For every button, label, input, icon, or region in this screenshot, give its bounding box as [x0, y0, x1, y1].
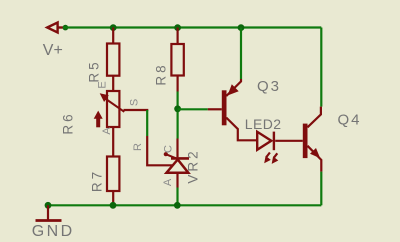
wire Q3 base: [178, 108, 208, 110]
wire R net (green): [146, 110, 148, 136]
svg-text:LED2: LED2: [245, 116, 282, 132]
wire top rail: [63, 26, 321, 28]
ground symbol: [36, 205, 62, 220]
svg-text:A: A: [101, 127, 113, 135]
resistor R7: [107, 127, 119, 205]
wire Q3 emitter to top rail: [240, 28, 242, 80]
junction dot at Q3 emitter column: [238, 24, 245, 31]
wire right vertical (top): [320, 28, 322, 107]
LED2 emission arrows: [264, 153, 278, 164]
resistor R5: [107, 28, 119, 92]
svg-text:Q4: Q4: [338, 111, 362, 128]
VR2 ref pin route: [147, 136, 172, 165]
power terminal V+: [47, 23, 63, 33]
potentiometer R6 wiper diagonal: [100, 93, 125, 112]
junction dot at R7 bottom: [110, 202, 117, 209]
svg-text:VR2: VR2: [186, 148, 201, 183]
svg-text:R: R: [132, 143, 144, 151]
wire R8 bottom to VR2: [177, 92, 179, 139]
shunt reference VR2: [164, 139, 189, 188]
wire Q4 emitter to rail: [320, 172, 322, 206]
svg-text:Q3: Q3: [257, 78, 281, 95]
svg-text:S: S: [128, 99, 140, 106]
transistor Q3 (PNP): [208, 79, 257, 140]
junction dot at R8 top: [174, 24, 181, 31]
svg-text:R8: R8: [154, 62, 169, 85]
pot wiper pin: [124, 109, 149, 111]
svg-text:R5: R5: [87, 59, 102, 82]
svg-text:R7: R7: [90, 169, 105, 192]
junction dot at VR2 bottom: [174, 202, 181, 209]
wire bottom rail: [48, 204, 321, 206]
svg-text:E: E: [96, 81, 108, 88]
junction dot at R5 top: [110, 24, 117, 31]
transistor Q4 (NPN): [303, 107, 322, 172]
svg-text:GND: GND: [32, 223, 75, 240]
svg-text:A: A: [162, 178, 174, 186]
resistor R8: [171, 28, 183, 92]
V+ terminal dot: [63, 25, 69, 31]
junction dot at Q3 base: [174, 105, 181, 112]
LED2: [257, 132, 303, 151]
potentiometer adjust arrow: [94, 111, 103, 128]
wire VR2 anode to rail: [176, 188, 178, 206]
svg-text:V+: V+: [43, 42, 63, 59]
svg-text:R6: R6: [61, 111, 76, 134]
junction dot at GND: [45, 202, 52, 209]
potentiometer R6 box: [107, 91, 119, 127]
svg-text:C: C: [162, 145, 174, 153]
